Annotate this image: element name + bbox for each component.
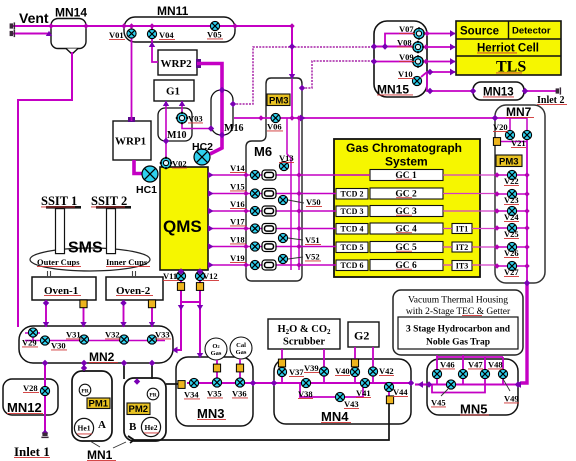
- svg-text:V09: V09: [399, 52, 414, 62]
- svg-text:G1: G1: [166, 86, 180, 98]
- svg-text:V01: V01: [109, 30, 124, 40]
- svg-text:MN11: MN11: [157, 4, 189, 18]
- svg-text:Vent: Vent: [19, 10, 49, 26]
- svg-text:V42: V42: [379, 366, 394, 376]
- svg-text:H2O & CO2: H2O & CO2: [277, 324, 331, 336]
- svg-text:PR: PR: [81, 389, 89, 395]
- svg-text:B: B: [129, 421, 137, 433]
- svg-text:V46: V46: [440, 360, 455, 370]
- svg-text:SSIT 2: SSIT 2: [91, 194, 127, 208]
- svg-text:V12: V12: [203, 271, 218, 281]
- svg-text:V51: V51: [305, 235, 320, 245]
- svg-text:V18: V18: [230, 235, 245, 245]
- svg-text:TCD 5: TCD 5: [341, 243, 364, 252]
- svg-text:V28: V28: [23, 383, 38, 393]
- svg-text:V03: V03: [188, 114, 203, 124]
- svg-text:Gas Chromatograph: Gas Chromatograph: [346, 141, 462, 155]
- svg-text:MN5: MN5: [460, 402, 487, 417]
- svg-text:V15: V15: [230, 182, 245, 192]
- svg-text:Outer Cups: Outer Cups: [37, 257, 80, 267]
- svg-text:MN7: MN7: [506, 105, 532, 119]
- svg-text:V13: V13: [279, 153, 294, 163]
- svg-text:V08: V08: [397, 38, 412, 48]
- svg-text:QMS: QMS: [163, 217, 202, 236]
- svg-text:IT3: IT3: [456, 262, 468, 271]
- svg-text:V34: V34: [184, 390, 199, 400]
- svg-text:V49: V49: [504, 394, 519, 404]
- svg-text:V25: V25: [504, 229, 519, 239]
- svg-text:Noble Gas Trap: Noble Gas Trap: [426, 338, 490, 348]
- svg-text:IT1: IT1: [456, 225, 468, 234]
- svg-text:M16: M16: [224, 123, 243, 134]
- svg-text:V40: V40: [335, 366, 350, 376]
- svg-text:O2: O2: [212, 343, 220, 350]
- svg-text:V33: V33: [155, 330, 170, 340]
- svg-text:TCD 2: TCD 2: [341, 190, 364, 199]
- svg-text:TCD 6: TCD 6: [341, 261, 364, 270]
- svg-text:TCD 3: TCD 3: [341, 207, 364, 216]
- svg-text:V24: V24: [504, 212, 519, 222]
- svg-text:V10: V10: [398, 69, 413, 79]
- svg-text:V31: V31: [66, 330, 81, 340]
- svg-text:MN12: MN12: [7, 400, 42, 415]
- svg-text:V48: V48: [488, 360, 503, 370]
- svg-text:V36: V36: [232, 389, 247, 399]
- svg-text:M6: M6: [254, 144, 272, 159]
- svg-text:V50: V50: [306, 197, 321, 207]
- svg-text:PM3: PM3: [499, 157, 519, 168]
- svg-text:V04: V04: [159, 30, 174, 40]
- svg-text:V06: V06: [267, 122, 282, 132]
- svg-text:V27: V27: [504, 267, 519, 277]
- svg-text:V43: V43: [344, 399, 359, 409]
- svg-text:MN2: MN2: [89, 350, 115, 364]
- svg-text:TCD 4: TCD 4: [341, 225, 364, 234]
- svg-text:SMS: SMS: [68, 240, 103, 257]
- svg-text:Gas: Gas: [236, 349, 247, 356]
- svg-text:HC1: HC1: [136, 184, 157, 196]
- svg-text:A: A: [98, 419, 106, 431]
- svg-text:MN1: MN1: [87, 448, 113, 461]
- svg-text:Cal: Cal: [236, 342, 246, 349]
- svg-text:V29: V29: [22, 338, 37, 348]
- svg-text:Source: Source: [460, 26, 499, 38]
- svg-text:Inlet 1: Inlet 1: [14, 444, 50, 459]
- svg-text:System: System: [385, 155, 428, 169]
- svg-text:V39: V39: [304, 363, 319, 373]
- svg-text:MN14: MN14: [55, 6, 87, 20]
- svg-text:PM2: PM2: [129, 404, 149, 415]
- svg-text:V26: V26: [504, 248, 519, 258]
- svg-text:IT2: IT2: [456, 243, 468, 252]
- svg-text:V07: V07: [399, 24, 414, 34]
- svg-text:MN3: MN3: [197, 406, 224, 421]
- svg-text:V19: V19: [230, 253, 245, 263]
- svg-text:V16: V16: [230, 199, 245, 209]
- svg-text:with 2-Stage TEC & Getter: with 2-Stage TEC & Getter: [406, 307, 511, 317]
- svg-text:V44: V44: [393, 387, 408, 397]
- svg-text:V30: V30: [51, 341, 66, 351]
- svg-text:V11: V11: [163, 271, 177, 281]
- svg-text:V35: V35: [207, 389, 222, 399]
- svg-text:MN15: MN15: [377, 83, 409, 97]
- svg-text:V22: V22: [504, 176, 519, 186]
- svg-text:PM1: PM1: [89, 399, 109, 410]
- svg-text:V14: V14: [230, 163, 245, 173]
- svg-text:M10: M10: [167, 130, 186, 141]
- svg-text:V17: V17: [230, 217, 245, 227]
- svg-text:Inner Cups: Inner Cups: [106, 257, 148, 267]
- svg-text:V41: V41: [356, 388, 371, 398]
- svg-text:G2: G2: [354, 329, 369, 343]
- svg-text:WRP2: WRP2: [161, 58, 193, 70]
- svg-text:V20: V20: [493, 122, 508, 132]
- svg-text:WRP1: WRP1: [115, 136, 146, 148]
- svg-text:He2: He2: [145, 423, 158, 432]
- svg-text:V23: V23: [504, 195, 519, 205]
- svg-text:Gas: Gas: [211, 350, 222, 357]
- svg-text:V47: V47: [468, 360, 483, 370]
- svg-text:Detector: Detector: [512, 26, 551, 37]
- svg-text:3 Stage Hydrocarbon and: 3 Stage Hydrocarbon and: [406, 325, 511, 335]
- svg-text:SSIT 1: SSIT 1: [41, 194, 77, 208]
- svg-text:V37: V37: [289, 367, 304, 377]
- svg-text:V52: V52: [305, 252, 320, 262]
- svg-text:V21: V21: [511, 138, 526, 148]
- svg-text:V05: V05: [207, 30, 222, 40]
- svg-text:V32: V32: [105, 330, 120, 340]
- svg-text:He1: He1: [78, 424, 91, 433]
- svg-text:Scrubber: Scrubber: [283, 337, 325, 348]
- svg-text:Vacuum Thermal Housing: Vacuum Thermal Housing: [408, 296, 508, 306]
- svg-text:HC2: HC2: [192, 141, 213, 153]
- svg-text:PM3: PM3: [269, 96, 289, 107]
- svg-text:V45: V45: [431, 398, 446, 408]
- svg-text:V02: V02: [172, 159, 187, 169]
- svg-text:PR: PR: [149, 393, 157, 399]
- svg-text:V38: V38: [298, 389, 313, 399]
- svg-text:MN4: MN4: [321, 409, 349, 424]
